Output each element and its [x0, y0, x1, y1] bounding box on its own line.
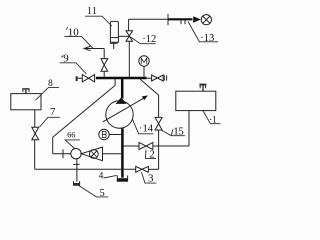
svg-text:4: 4: [99, 172, 104, 182]
svg-text:5: 5: [100, 188, 105, 199]
svg-text:7: 7: [50, 106, 56, 118]
svg-text:2: 2: [149, 149, 155, 161]
svg-text:·1: ·1: [209, 115, 217, 125]
svg-text:10: 10: [68, 26, 80, 38]
svg-text:15: 15: [173, 125, 184, 137]
svg-text:·13: ·13: [200, 33, 214, 44]
svg-text:66: 66: [67, 130, 75, 139]
svg-text:11: 11: [87, 6, 97, 17]
svg-text:·12: ·12: [142, 34, 156, 45]
svg-text:·14: ·14: [139, 124, 154, 135]
svg-text:3: 3: [148, 172, 154, 184]
svg-text:9: 9: [63, 53, 69, 65]
svg-text:8: 8: [48, 79, 53, 89]
